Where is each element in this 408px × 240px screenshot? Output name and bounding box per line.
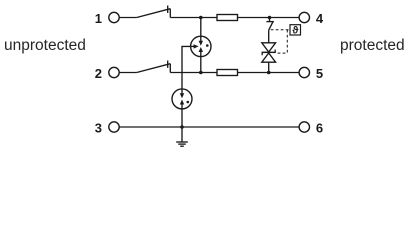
node line1 TVS branch bbox=[268, 16, 272, 20]
svg-text:3: 3 bbox=[95, 120, 102, 135]
dashed linkage to TVS bbox=[278, 52, 288, 54]
terminal 5 bbox=[299, 67, 309, 77]
disconnect switch line1 bbox=[137, 6, 171, 18]
node line3 ground branch bbox=[180, 125, 184, 129]
node line1 GDT branch bbox=[199, 16, 203, 20]
disconnect switch line2 bbox=[137, 61, 171, 73]
wire line1 to GDT1 top bbox=[200, 18, 202, 37]
dashed linkage thermal switch to sensor bbox=[271, 29, 290, 31]
wire resistor2 to terminal5 bbox=[238, 72, 299, 74]
svg-text:unprotected: unprotected bbox=[4, 37, 86, 54]
wire GDT2 bottom to line3 bbox=[181, 109, 183, 127]
wire GDT1 bottom to line2 bbox=[200, 57, 202, 73]
wire switch1 to resistor1 bbox=[170, 17, 217, 19]
svg-text:6: 6 bbox=[316, 120, 323, 135]
ground bbox=[176, 127, 188, 146]
node line2 TVS branch bbox=[267, 71, 271, 75]
gas discharge tube GDT1 (3-electrode) bbox=[191, 36, 211, 56]
terminal 4 bbox=[299, 12, 309, 22]
svg-text:ϑ: ϑ bbox=[292, 25, 299, 37]
svg-text:1: 1 bbox=[95, 11, 102, 26]
svg-text:protected: protected bbox=[340, 37, 405, 54]
wire terminal1 to switch1 bbox=[119, 17, 137, 19]
terminal 6 bbox=[299, 122, 309, 132]
svg-text:4: 4 bbox=[316, 11, 324, 26]
wire resistor1 to terminal4 bbox=[238, 17, 300, 19]
temperature sensor box bbox=[290, 25, 301, 37]
wire GDT1 left electrode to GDT2 bbox=[182, 46, 191, 88]
thermal disconnect switch bbox=[266, 18, 274, 43]
svg-text:5: 5 bbox=[316, 66, 323, 81]
wire terminal3 to terminal6 bbox=[119, 126, 299, 128]
svg-text:2: 2 bbox=[95, 66, 102, 81]
node line2 GDT branch bbox=[199, 71, 203, 75]
wire switch2 to resistor2 bbox=[170, 72, 217, 74]
gas discharge tube GDT2 bbox=[172, 89, 192, 109]
resistor line2 bbox=[217, 70, 238, 76]
dashed linkage vertical bbox=[286, 30, 288, 53]
wire terminal2 to switch2 bbox=[119, 72, 137, 74]
TVS suppressor diode (bidirectional) bbox=[262, 43, 276, 73]
terminal 1 bbox=[109, 12, 119, 22]
terminal 2 bbox=[109, 67, 119, 77]
terminal 3 bbox=[109, 122, 119, 132]
resistor line1 bbox=[217, 15, 238, 21]
